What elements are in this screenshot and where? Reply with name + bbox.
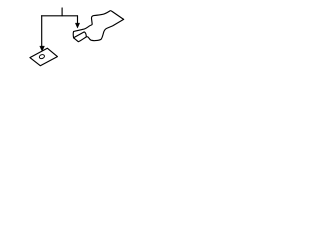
ribbon left end edge <box>72 32 74 38</box>
hole ellipse in plate <box>39 54 45 59</box>
ribbon top outline <box>74 11 124 32</box>
arrowhead left <box>40 46 45 51</box>
arrowhead right <box>75 23 79 28</box>
wire left drop <box>41 16 43 47</box>
ribbon bottom outline <box>74 19 124 41</box>
ribbon left fold edge <box>74 32 87 38</box>
wire top tick stub <box>61 8 63 16</box>
parallelogram plate <box>30 48 58 65</box>
wire horizontal connector <box>42 15 78 17</box>
wire right drop <box>77 16 79 23</box>
